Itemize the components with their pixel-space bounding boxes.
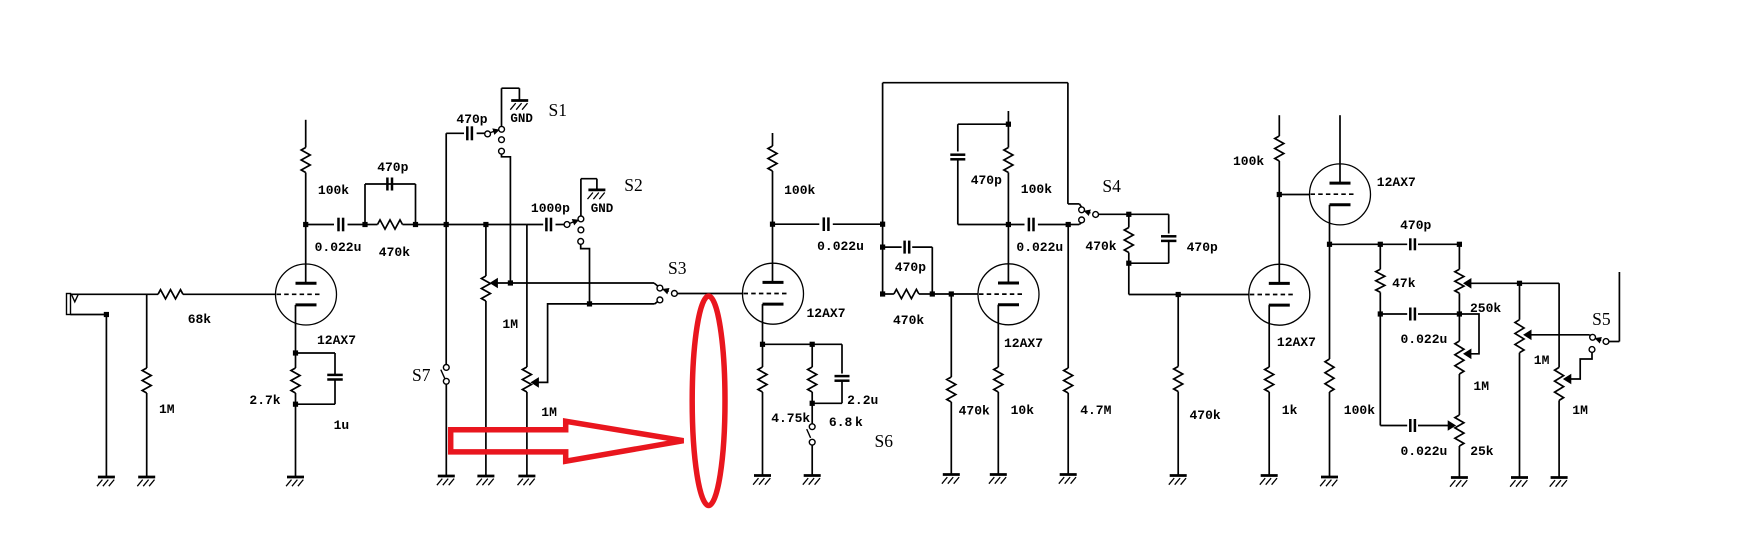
pot2 wiper arrow — [1564, 375, 1571, 384]
svg-text:470k: 470k — [1190, 408, 1221, 423]
resistor 100k (tone) — [1329, 244, 1331, 359]
svg-text:S4: S4 — [1102, 176, 1121, 196]
svg-text:1M: 1M — [1473, 379, 1489, 394]
svg-text:12AX7: 12AX7 — [1377, 175, 1416, 190]
node mid — [1378, 311, 1383, 316]
svg-text:2.2u: 2.2u — [847, 393, 878, 408]
triode V4 12AX7 cathode bar — [1269, 304, 1290, 307]
svg-text:100k: 100k — [1344, 403, 1375, 418]
wire jack sleeve — [71, 314, 107, 316]
switch S6 top contact — [809, 424, 815, 430]
resistor 1M (grid leak) — [142, 368, 151, 393]
capacitor 0.022u (coupling 3) — [1028, 218, 1031, 232]
svg-text:0.022u: 0.022u — [817, 239, 864, 254]
node C — [444, 222, 449, 227]
wire V5 plate supply stub — [1339, 115, 1341, 183]
switch S4 arm contact — [1093, 212, 1099, 218]
capacitor 470p (S4) — [1161, 235, 1176, 238]
svg-text:470k: 470k — [1085, 239, 1116, 254]
wire to V3 grid — [932, 293, 978, 295]
switch S1 common contact — [485, 131, 491, 137]
node grid leak — [949, 291, 954, 296]
svg-text:k: k — [855, 415, 863, 430]
svg-text:470p: 470p — [1400, 218, 1431, 233]
svg-text:0.022u: 0.022u — [1016, 240, 1063, 255]
ground (S7) — [438, 475, 455, 478]
feedback top wire — [883, 82, 1068, 84]
ground (S5 pot2) — [1551, 476, 1568, 479]
wire pot1 to ground — [1519, 353, 1521, 478]
input jack J1 — [67, 294, 71, 315]
wire node B to node C — [416, 224, 447, 226]
wire feedback to S4 top contact — [1068, 203, 1080, 205]
wire S5 arm to output riser — [1609, 341, 1620, 343]
wire S1 top contact to GND — [501, 88, 503, 126]
ground (1k) — [1261, 474, 1278, 477]
svg-text:100k: 100k — [784, 183, 815, 198]
ground (tone 100k) — [1321, 476, 1338, 479]
wire node G to V5 grid — [1279, 194, 1310, 196]
svg-text:470p: 470p — [895, 260, 926, 275]
wire node C down to S7 — [445, 225, 447, 365]
svg-text:4.75k: 4.75k — [771, 411, 810, 426]
triode U V3 12AX7 envelope — [978, 264, 1039, 325]
capacitor 0.022u (mid) — [1380, 313, 1407, 315]
250k wiper arrow — [1464, 279, 1471, 288]
svg-text:0.022u: 0.022u — [1401, 444, 1448, 459]
ground (pot1) — [477, 475, 494, 478]
wire grid leak to ground — [950, 402, 952, 475]
node V2 plate — [770, 222, 775, 227]
wire V3 cathode down — [997, 305, 999, 367]
triode V1 12AX7 grid (dashed) — [277, 293, 320, 295]
triode U V1 12AX7 envelope — [276, 264, 337, 325]
ground (V1 cathode) — [287, 476, 304, 479]
wire node A up for 470p — [364, 184, 366, 225]
wire V3 plate to 0.022u — [1008, 224, 1024, 226]
resistor 470k (series) — [365, 224, 378, 226]
wire grid leak to ground — [1177, 392, 1179, 476]
switch S5 lower contact — [1589, 347, 1595, 353]
node F — [1066, 222, 1071, 227]
wire V4 cathode down — [1268, 305, 1270, 367]
wire mid node down to bass cap — [1379, 314, 1381, 426]
switch S2 middle contact — [578, 227, 584, 233]
wire jack tip to 68k — [71, 293, 159, 295]
switch S7 top contact — [443, 365, 449, 371]
wire to V4 grid — [1178, 294, 1249, 296]
resistor 470k (grid series) — [883, 293, 894, 295]
svg-text:GND: GND — [510, 112, 533, 126]
triode V3 12AX7 plate bar — [998, 282, 1019, 285]
wire pot1 to ground — [485, 301, 487, 476]
wire supply stub V3 — [1007, 111, 1009, 124]
wire cap to S1 common — [477, 132, 485, 134]
capacitor 0.022u (bass) — [1409, 419, 1412, 432]
svg-text:1M: 1M — [159, 402, 175, 417]
triode V5 12AX7 cathode bar — [1330, 203, 1351, 206]
switch S2 top contact — [578, 216, 584, 222]
svg-text:470p: 470p — [971, 173, 1002, 188]
25k wiper arrow — [1448, 421, 1455, 430]
triode V2 12AX7 cathode bar — [763, 303, 784, 306]
switch S3 top contact — [657, 285, 663, 291]
wire pot1 wiper to S5 common — [1531, 334, 1589, 336]
switch S6 bottom contact — [809, 439, 815, 445]
switch S3 arm contact — [672, 291, 678, 297]
switch S1 arm — [490, 130, 496, 132]
potentiometer 1M (middle) — [1458, 314, 1460, 341]
wire to 1u cap top — [296, 352, 336, 354]
wire pot2 top down — [526, 225, 528, 368]
resistor 1k (V4 cathode) — [1265, 367, 1274, 392]
wire pot2 to ground — [526, 392, 528, 476]
wire to 470p top — [1129, 213, 1169, 215]
wire 10k to ground — [997, 392, 999, 475]
potentiometer 1M (pot1 body) — [481, 276, 490, 301]
switch S2 bottom contact — [578, 239, 584, 245]
svg-text:6.8: 6.8 — [829, 415, 853, 430]
potentiometer 1M (pot2 body) — [522, 367, 531, 392]
capacitor 1u (cathode bypass) — [327, 374, 343, 377]
svg-text:0.022u: 0.022u — [315, 240, 362, 255]
capacitor 1000p (S2) — [545, 218, 548, 232]
wire 1M down — [146, 294, 148, 368]
wire 68k to V1 grid — [183, 293, 276, 295]
wire S2 top contact to GND — [580, 179, 582, 216]
node 6.8k top — [810, 342, 815, 347]
wire node C up to S1 cap — [445, 133, 447, 224]
wire V2 supply stub — [772, 133, 774, 146]
svg-text:47k: 47k — [1392, 276, 1416, 291]
triode V2 12AX7 plate bar — [763, 281, 784, 284]
node V1 cathode — [293, 350, 298, 355]
svg-text:470k: 470k — [893, 313, 924, 328]
svg-text:4.7M: 4.7M — [1080, 403, 1111, 418]
triode V4 12AX7 plate bar — [1269, 282, 1290, 285]
switch S4 arm — [1084, 211, 1090, 213]
wire V5 cathode down — [1329, 205, 1331, 245]
resistor 100k (V2 plate load) — [772, 171, 774, 224]
svg-text:12AX7: 12AX7 — [1004, 336, 1043, 351]
node jack sleeve — [104, 312, 109, 317]
pot2 wiper arrow — [531, 378, 538, 387]
node E — [1006, 122, 1011, 127]
wire S7 to ground — [445, 384, 447, 476]
resistor 68k — [158, 290, 183, 299]
svg-text:12AX7: 12AX7 — [807, 306, 846, 321]
triode U V5 12AX7 envelope — [1310, 164, 1371, 225]
switch S5 arm — [1595, 338, 1601, 340]
wire lower bus bend to S3 bottom — [655, 301, 658, 304]
svg-text:470p: 470p — [456, 112, 487, 127]
wire down to V4 grid line — [1128, 263, 1130, 294]
switch S2 arm — [570, 221, 576, 224]
node 470k top — [1126, 212, 1131, 217]
wire feedback riser — [882, 83, 884, 294]
rail to 250k — [1418, 243, 1459, 245]
svg-text:1M: 1M — [541, 405, 557, 420]
potentiometer 1M (S5 pot1) — [1519, 283, 1521, 319]
svg-text:S3: S3 — [668, 258, 687, 278]
svg-text:S1: S1 — [549, 100, 567, 120]
wire 2.7k to ground — [295, 404, 297, 477]
wire to 2.2u — [812, 343, 842, 345]
wire V2 cathode down — [762, 304, 764, 344]
ground GND (S2) — [588, 188, 605, 191]
resistor 4.75k — [762, 344, 764, 367]
node 250k bottom — [1457, 311, 1462, 316]
wire 4.75k to ground — [762, 392, 764, 476]
wire 6.8k node to S6 — [811, 403, 813, 424]
svg-text:100k: 100k — [318, 183, 349, 198]
wire feedback down to S4 — [1067, 83, 1069, 204]
wire 1M to ground — [146, 393, 148, 477]
wire 100k to ground — [1329, 392, 1331, 477]
capacitor 470p (treble) — [1409, 238, 1412, 250]
ground (1M) — [138, 476, 155, 479]
ground (pot2) — [518, 475, 535, 478]
node tone rail left — [1327, 242, 1332, 247]
svg-text:1u: 1u — [334, 418, 350, 433]
wire S6 to ground — [811, 445, 813, 475]
node S5 bus / pot 1M#1 top — [1517, 281, 1522, 286]
wire down to pot2 — [1558, 283, 1560, 367]
svg-text:470p: 470p — [1187, 240, 1218, 255]
resistor 6.8k — [811, 344, 813, 367]
wire cap to node F — [1038, 224, 1068, 226]
wire node C to pot1 node — [446, 224, 486, 226]
wire 1k to ground — [1268, 392, 1270, 476]
wire to 470p (V3 grid) — [883, 246, 902, 248]
triode V1 12AX7 cathode bar — [296, 303, 317, 306]
ground (S6) — [804, 474, 821, 477]
node V2 cathode — [760, 342, 765, 347]
resistor 47k — [1379, 244, 1381, 269]
svg-text:S6: S6 — [875, 431, 894, 451]
node feedback/coupling — [880, 222, 885, 227]
resistor 470k (S4) — [1128, 214, 1130, 227]
ground (10k) — [990, 473, 1007, 476]
resistor 470k (V4 grid leak) — [1177, 295, 1179, 367]
svg-text:S5: S5 — [1592, 309, 1611, 329]
potentiometer 25k (bass) — [1455, 415, 1464, 446]
1M middle wiper bracket — [1459, 314, 1479, 354]
svg-text:1M: 1M — [1572, 403, 1588, 418]
triode V4 12AX7 grid (dashed) — [1250, 294, 1293, 296]
ground GND (S1) — [511, 99, 528, 102]
ground (V3 grid leak) — [943, 473, 960, 476]
node 470k bottom — [1126, 261, 1131, 266]
wire pot1 wiper to S3 top — [497, 282, 654, 284]
wire 100k supply stub — [1278, 115, 1280, 136]
triode V5 12AX7 plate bar — [1330, 182, 1351, 185]
resistor 100k (V4 plate load) — [1278, 161, 1280, 195]
pot1 wiper arrow — [490, 279, 497, 288]
node B — [413, 222, 418, 227]
node V3 grid bus left — [880, 291, 885, 296]
potentiometer 1M (S5 pot2) — [1555, 367, 1564, 400]
switch S3 bottom contact — [657, 297, 663, 303]
svg-text:12AX7: 12AX7 — [1277, 335, 1316, 350]
svg-text:470p: 470p — [377, 160, 408, 175]
switch S1 top contact — [499, 126, 505, 132]
ground (4.75k) — [754, 474, 771, 477]
svg-text:1k: 1k — [1282, 403, 1298, 418]
svg-text:10k: 10k — [1011, 403, 1035, 418]
node wiper/S1 junction — [508, 280, 513, 285]
svg-text:100k: 100k — [1233, 154, 1264, 169]
resistor 100k (V1 plate load) — [301, 148, 310, 173]
wire V1 cathode down — [295, 305, 297, 353]
capacitor 470p (bright, over 470k) — [386, 178, 389, 191]
capacitor 470p (V3 plate) — [950, 153, 965, 156]
wire 1M to 25k — [1458, 374, 1460, 415]
wire V2 plate to 0.022u — [773, 223, 820, 225]
node V4 grid leak — [1176, 292, 1181, 297]
wire 25k to ground — [1458, 446, 1460, 478]
node 250k top — [1457, 242, 1462, 247]
wire 47k to mid node — [1379, 292, 1381, 314]
svg-text:470k: 470k — [959, 404, 990, 419]
pot1 wiper arrow — [1524, 330, 1531, 339]
svg-text:S7: S7 — [412, 365, 431, 385]
node 6.8k bottom — [811, 392, 813, 403]
node 2.7k bottom — [295, 393, 297, 404]
wire 470p down — [415, 184, 417, 225]
switch S1 middle contact — [499, 137, 505, 143]
wire plate node to 100k — [305, 173, 307, 225]
switch S7 bottom contact — [443, 378, 449, 384]
svg-text:100k: 100k — [1021, 182, 1052, 197]
resistor 4.7M — [1067, 225, 1069, 369]
capacitor 470p (S1) — [466, 126, 469, 140]
svg-text:470k: 470k — [379, 245, 410, 260]
triode U V2 12AX7 envelope — [743, 263, 804, 324]
svg-text:S2: S2 — [624, 175, 642, 195]
node V1 plate — [303, 222, 308, 227]
node 47k top — [1378, 242, 1383, 247]
wire V3 plate up — [1007, 225, 1009, 284]
svg-text:GND: GND — [591, 202, 614, 216]
ground (25k) — [1451, 476, 1468, 479]
triode V3 12AX7 grid (dashed) — [979, 293, 1022, 295]
triode V5 12AX7 grid (dashed) — [1311, 193, 1354, 195]
resistor 2.7k (V1 cathode) — [295, 353, 297, 368]
wire 250k wiper to S5 bus — [1471, 282, 1559, 284]
node V3 plate — [1006, 222, 1011, 227]
switch S7 arm — [441, 370, 445, 379]
red arrow annotation — [451, 421, 684, 461]
wire S1 bottom contact down to wiper line — [502, 154, 511, 283]
wire V1 plate up — [305, 225, 307, 284]
ground (S5 pot1) — [1511, 476, 1528, 479]
triode U V4 12AX7 envelope — [1249, 264, 1310, 325]
capacitor 0.022u (coupling 1) — [337, 218, 340, 232]
svg-text:1M: 1M — [1534, 353, 1550, 368]
capacitor 0.022u (coupling 2) — [823, 217, 826, 231]
wire 470p to grid node — [912, 246, 932, 248]
switch S5 arm contact — [1603, 339, 1609, 345]
wire 1u bottom — [334, 381, 336, 405]
switch S5 common contact — [1590, 334, 1596, 340]
wire S5 lower contact to pot2 wiper — [1571, 352, 1592, 379]
jack tip contact — [72, 295, 79, 302]
ground (input sleeve) — [98, 476, 115, 479]
svg-text:2.7k: 2.7k — [249, 393, 280, 408]
wire 100k to supply stub — [305, 120, 307, 148]
wire node D to pot2 top — [486, 224, 527, 226]
resistor 470k (V3 grid leak) — [950, 294, 952, 377]
tone rail — [1330, 243, 1408, 245]
capacitor 2.2u — [835, 375, 850, 378]
svg-text:25k: 25k — [1470, 444, 1494, 459]
wire pot2 to ground — [1558, 400, 1560, 477]
wire 2.2u bottom — [841, 382, 843, 404]
capacitor 470p (grid series) — [903, 241, 906, 254]
svg-text:12AX7: 12AX7 — [317, 333, 356, 348]
wire bass cap to 25k wiper — [1418, 425, 1449, 427]
1M middle wiper arrow — [1464, 349, 1471, 358]
ground (V4 grid leak) — [1170, 474, 1187, 477]
switch S4 bottom contact — [1079, 217, 1085, 223]
node A — [362, 222, 367, 227]
wire 4.7M to ground — [1067, 393, 1069, 475]
wire sleeve down to ground — [105, 315, 107, 478]
wire 1000p to S2 common — [556, 224, 565, 226]
potentiometer 250k (treble) — [1458, 244, 1460, 269]
resistor 100k (V3 plate load) — [1007, 173, 1009, 225]
svg-text:1000p: 1000p — [531, 201, 570, 216]
wire 470p bottom — [1168, 242, 1170, 264]
svg-text:1M: 1M — [502, 317, 518, 332]
wire 100k to node E — [1007, 124, 1009, 147]
output riser — [1618, 272, 1620, 342]
wire pot2 top to 1000p — [527, 224, 543, 226]
node 470p tap — [880, 245, 885, 250]
wire pot2 wiper up to lower bus — [538, 304, 654, 383]
switch S6 arm — [807, 429, 811, 438]
wire cap to node A — [348, 224, 366, 226]
switch S2 common contact — [564, 222, 570, 228]
svg-text:0.022u: 0.022u — [1401, 332, 1448, 347]
wire cap to feedback node — [833, 223, 883, 225]
switch S3 arm — [663, 289, 669, 291]
node 470k/470p join — [930, 291, 935, 296]
node G — [1277, 192, 1282, 197]
wire S2 bottom contact to lower bus — [581, 244, 590, 304]
wire node F to S4 bottom contact — [1068, 224, 1079, 226]
triode V1 12AX7 plate bar — [296, 282, 317, 285]
switch S1 bottom contact — [499, 148, 505, 154]
svg-text:68k: 68k — [188, 312, 212, 327]
triode V3 12AX7 cathode bar — [998, 303, 1019, 306]
node D (pot1 top) — [483, 222, 488, 227]
red ellipse annotation — [692, 296, 725, 505]
switch S4 top contact — [1079, 207, 1085, 213]
triode V2 12AX7 grid (dashed) — [744, 293, 787, 295]
wire 470p bottom to plate node — [957, 160, 959, 225]
wire plate node to 0.022u — [306, 224, 334, 226]
wire S4 arm to 470k — [1099, 213, 1129, 215]
wire V2 plate up — [772, 224, 774, 282]
wire node E to 470p — [958, 123, 1009, 125]
resistor 10k (V3 cathode) — [994, 367, 1003, 392]
node lower bus / S2 — [587, 301, 592, 306]
wire node D down to pot1 — [485, 225, 487, 277]
wire cathode to 6.8k — [763, 343, 813, 345]
ground (4.7M) — [1060, 473, 1077, 476]
